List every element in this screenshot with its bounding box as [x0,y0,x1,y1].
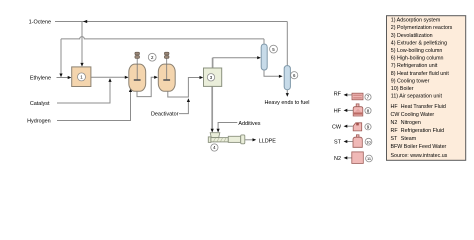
agitator shaft 2a [136,59,138,80]
wire box 3 overhead to column 5 [212,58,214,69]
high-boiling column 6 [284,66,290,90]
svg-text:HF: HF [334,109,342,115]
cooling tower symbol 9 [353,123,362,131]
svg-text:Heat Transfer Fluid: Heat Transfer Fluid [401,104,446,110]
arrow column5 bottoms into column 6 (right) [279,75,283,78]
devolatilization box 3 [204,68,222,86]
svg-text:Cooling Water: Cooling Water [401,112,435,118]
arrow into reactor 2 (right) [154,76,158,79]
svg-text:6) High-boiling column: 6) High-boiling column [391,56,444,62]
svg-text:Source: www.intratec.us: Source: www.intratec.us [391,153,448,159]
motor 2a [135,52,140,58]
extruder barrel [211,138,228,142]
label circle 9 [365,124,371,130]
extruder body [228,136,240,142]
label circle 5 [270,45,278,53]
svg-text:RF: RF [391,128,399,134]
svg-text:ST: ST [391,136,399,142]
heat transfer fluid furnace symbol 8 [356,104,359,107]
svg-text:9) Cooling tower: 9) Cooling tower [391,78,430,84]
label circle 8 [365,108,371,114]
svg-text:4) Extruder & pelletizing: 4) Extruder & pelletizing [391,40,447,46]
reactor vessel 2b [158,64,175,91]
svg-text:1-Octene: 1-Octene [29,19,51,25]
svg-text:N2: N2 [391,120,398,126]
arrow additives into extruder (down) [217,129,220,133]
stream labels [27,19,309,144]
impeller 2b [163,79,170,81]
wire hydrogen feed [57,90,131,121]
svg-text:Nitrogen: Nitrogen [401,120,421,126]
wire column 6 overhead recycle [286,22,288,66]
extruder die [241,135,245,144]
svg-text:N2: N2 [334,156,341,162]
wire reactor 1 bottoms to reactor 2 [137,77,156,96]
wire box 3 bottoms to extruder [211,86,213,131]
wire 1-octene drop to box 1 [81,22,83,65]
label circle 3 [207,74,214,81]
svg-text:Additives: Additives [238,121,260,127]
refrigeration unit symbol 7 [352,93,363,100]
svg-text:2) Polymerization reactors: 2) Polymerization reactors [391,25,453,31]
motor 2b [164,52,169,58]
utility row RF [344,93,363,100]
wire column 5 bottoms to column 6 [264,70,281,76]
arrow recycle into ethylene line (down) [59,74,62,78]
arrow LLDPE out (right) [253,138,257,141]
arrow into column 5 (right) [257,56,261,59]
arrow hydrogen into reactor 1 (up) [129,88,132,92]
svg-text:Boiler Feed Water: Boiler Feed Water [404,144,447,150]
svg-text:3) Devolatilization: 3) Devolatilization [391,33,433,39]
agitator shaft 2b [166,59,168,80]
wire column 5 overhead [263,39,265,44]
wire recycle down to ethylene line [60,39,62,75]
circled numbers [78,45,373,162]
svg-text:8) Heat transfer fluid unit: 8) Heat transfer fluid unit [391,71,450,77]
arrow ethylene into box 1 (right) [68,76,72,79]
utility tags [332,92,342,162]
boiler symbol 10 [356,135,359,138]
wire ethylene feed [57,77,71,79]
arrow into reactor 1 (right) [125,76,129,79]
svg-text:5) Low-boiling column: 5) Low-boiling column [391,48,443,54]
wire extruder outlet [245,139,255,141]
extruder unit 4 [208,133,245,144]
wire column 6 bottoms [286,90,288,96]
wire reactor 2 bottoms to box 3 [168,78,202,98]
svg-text:Refrigeration Fluid: Refrigeration Fluid [401,128,444,134]
low-boiling column 5 [261,44,267,70]
extruder hopper [210,133,220,138]
impeller 2a [134,79,141,81]
air separation unit symbol 11 [352,152,364,164]
svg-text:HF: HF [391,104,399,110]
legend box [387,16,466,161]
label circle 4 [211,144,218,151]
label circle 7 [365,94,371,100]
reactor vessel 2a [129,64,146,91]
svg-text:LLDPE: LLDPE [259,139,277,145]
utility row CW [344,123,362,131]
svg-text:11: 11 [367,156,371,161]
arrow heavy ends out (down) [286,93,289,97]
arrow recycle into octene junction (left) [83,20,87,23]
svg-text:Ethylene: Ethylene [30,75,51,81]
label circle 1 [78,73,86,81]
svg-text:1) Adsorption system: 1) Adsorption system [391,18,441,24]
svg-text:Steam: Steam [401,136,417,142]
svg-text:Deactivator: Deactivator [151,112,179,118]
wire ethylene recycle header with hop [61,37,264,39]
wire 1-octene header [55,21,287,23]
extruder left cap [208,137,211,143]
svg-text:7) Refrigeration unit: 7) Refrigeration unit [391,63,438,69]
arrow octene into box 1 (down) [80,63,83,67]
utility row ST [344,135,363,148]
adsorption system box 1 [72,67,91,87]
arrowheads [59,20,289,141]
svg-text:RF: RF [334,92,342,98]
svg-text:Heavy ends to fuel: Heavy ends to fuel [264,100,309,106]
svg-text:ST: ST [334,140,342,146]
svg-text:CW: CW [391,112,400,118]
label circle 6 [291,72,298,79]
svg-text:CW: CW [332,124,342,130]
arrow box3 bottoms into extruder (down) [211,129,214,133]
svg-text:10) Boiler: 10) Boiler [391,86,414,92]
utility row HF [344,104,363,116]
svg-text:BFW: BFW [391,144,403,150]
label circle 11 [366,155,373,162]
svg-text:Hydrogen: Hydrogen [27,118,51,124]
arrow catalyst junction (up) [108,78,111,82]
wire deactivator feed [179,100,188,114]
svg-text:11) Air separation unit: 11) Air separation unit [391,94,443,100]
wire catalyst feed [57,80,110,103]
label circle 2 [148,53,156,61]
svg-text:Catalyst: Catalyst [30,101,50,107]
arrow deactivator junction (up) [187,98,190,102]
utility row N2 [344,152,364,164]
label circle 10 [365,138,372,145]
wire box1 to reactor 1 [91,76,127,78]
wire additives feed [218,123,237,131]
arrow into box 3 (right) [200,76,204,79]
